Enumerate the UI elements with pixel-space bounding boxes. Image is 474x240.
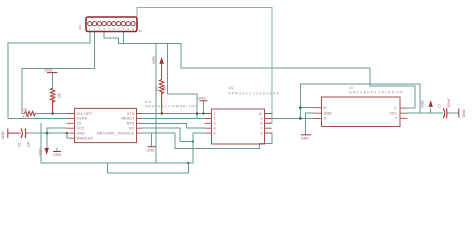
svg-text:4: 4 bbox=[214, 127, 216, 131]
svg-text:RESET: RESET bbox=[122, 117, 136, 121]
svg-text:5: 5 bbox=[214, 131, 216, 135]
svg-text:VDD: VDD bbox=[421, 100, 425, 108]
svg-text:GND: GND bbox=[198, 96, 207, 100]
svg-text:VCC: VCC bbox=[77, 127, 85, 131]
svg-text:GND: GND bbox=[1, 131, 5, 140]
svg-text:XRP0141J-PM9A-TR5: XRP0141J-PM9A-TR5 bbox=[145, 104, 198, 109]
svg-text:R5: R5 bbox=[155, 87, 159, 91]
svg-text:GND: GND bbox=[53, 153, 62, 157]
svg-text:U6: U6 bbox=[229, 85, 235, 90]
svg-text:GND: GND bbox=[301, 137, 310, 141]
svg-text:BY: BY bbox=[129, 127, 135, 131]
svg-text:JP2: JP2 bbox=[78, 24, 82, 30]
svg-text:GND: GND bbox=[77, 131, 86, 135]
svg-text:GND: GND bbox=[324, 112, 332, 116]
svg-text:3: 3 bbox=[214, 122, 216, 126]
svg-text:10k: 10k bbox=[163, 85, 167, 91]
svg-text:C: C bbox=[394, 106, 397, 110]
svg-text:GND: GND bbox=[45, 68, 54, 72]
svg-text:2: 2 bbox=[214, 117, 216, 121]
svg-text:10: 10 bbox=[139, 29, 143, 33]
svg-text:VDD: VDD bbox=[152, 56, 156, 64]
svg-text:RTS: RTS bbox=[127, 122, 135, 126]
svg-text:7: 7 bbox=[261, 127, 263, 131]
svg-text:C6: C6 bbox=[18, 143, 22, 147]
svg-text:GROUND_PADDLE: GROUND_PADDLE bbox=[97, 131, 135, 135]
svg-text:10k: 10k bbox=[58, 92, 62, 98]
svg-text:UVFB: UVFB bbox=[77, 117, 88, 121]
svg-text:1uF: 1uF bbox=[27, 141, 31, 147]
svg-text:VDD: VDD bbox=[39, 148, 43, 156]
svg-text:6: 6 bbox=[261, 131, 263, 135]
svg-text:R7: R7 bbox=[24, 108, 28, 112]
svg-text:9: 9 bbox=[261, 117, 263, 121]
svg-text:EN_OFF: EN_OFF bbox=[77, 112, 93, 116]
svg-text:VCC: VCC bbox=[389, 111, 397, 115]
svg-text:6PA31CC101S1E4D: 6PA31CC101S1E4D bbox=[229, 91, 281, 96]
svg-text:GND: GND bbox=[462, 109, 466, 118]
svg-text:C7: C7 bbox=[438, 103, 442, 107]
svg-text:8: 8 bbox=[261, 122, 263, 126]
svg-text:10: 10 bbox=[259, 112, 263, 116]
svg-text:WAKEUP: WAKEUP bbox=[77, 137, 94, 141]
svg-text:SN74AUP1T97DRYR: SN74AUP1T97DRYR bbox=[349, 90, 403, 95]
svg-text:470k: 470k bbox=[23, 114, 30, 118]
svg-text:R4: R4 bbox=[53, 94, 57, 98]
svg-text:100nF: 100nF bbox=[447, 98, 451, 107]
svg-text:TX: TX bbox=[77, 122, 82, 126]
svg-text:1: 1 bbox=[214, 112, 216, 116]
svg-text:GND: GND bbox=[147, 149, 156, 153]
svg-text:STS: STS bbox=[127, 112, 135, 116]
